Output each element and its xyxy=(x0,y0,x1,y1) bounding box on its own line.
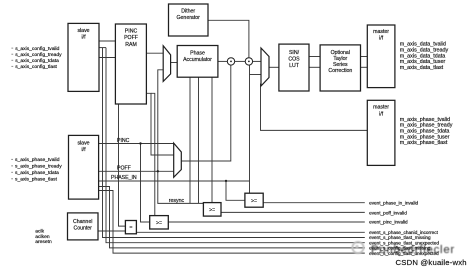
svg-text:slave: slave xyxy=(77,141,89,147)
comparator A pinc xyxy=(150,216,169,229)
svg-text:s_axis_config_tvalid: s_axis_config_tvalid xyxy=(15,46,59,52)
svg-text:slave: slave xyxy=(77,28,89,34)
svg-text:aresetn: aresetn xyxy=(35,239,52,245)
wire accumulator tap to comparator B top xyxy=(211,77,213,202)
svg-text:s_axis_phase_tdata: s_axis_phase_tdata xyxy=(15,170,59,176)
block Phase Accumulator xyxy=(177,46,218,78)
wire event_phase_in_invalid xyxy=(263,202,365,204)
svg-text:Channel: Channel xyxy=(73,219,92,225)
svg-text:PINC: PINC xyxy=(125,29,138,35)
comparator equality chanid xyxy=(125,221,136,234)
svg-text:s_axis_phase_tlast: s_axis_phase_tlast xyxy=(15,177,58,183)
svg-text:resync: resync xyxy=(169,198,185,204)
svg-text:>=: >= xyxy=(209,208,215,214)
wire adder C2 bottom tap down to comparator C top xyxy=(249,65,251,193)
svg-text:aclken: aclken xyxy=(35,234,50,240)
svg-text:SIN/: SIN/ xyxy=(289,50,300,56)
svg-text:s_axis_config_tready: s_axis_config_tready xyxy=(15,52,62,58)
svg-text:Dither: Dither xyxy=(181,8,195,14)
svg-text:POFF: POFF xyxy=(124,35,138,41)
block Dither Generator xyxy=(169,4,209,36)
wire accumulator tap to resync 2 xyxy=(198,77,200,203)
wire accumulator tap to resync 1 xyxy=(189,77,191,203)
svg-text:PHASE_IN: PHASE_IN xyxy=(111,175,137,181)
svg-text:LUT: LUT xyxy=(289,63,300,69)
svg-text:RAM: RAM xyxy=(125,42,137,48)
wire M1 output to phase accumulator xyxy=(171,62,178,64)
wire phase event column 1 xyxy=(99,187,365,248)
wire Taylor to master data lower xyxy=(361,66,368,68)
wire accumulator output to adder C1 xyxy=(218,60,227,62)
wire RAM tap branch down to comparator A top xyxy=(151,93,155,215)
svg-text:Phase: Phase xyxy=(190,50,205,56)
wire slave1 branch to event columns xyxy=(99,47,106,49)
junction PHASE_IN tap xyxy=(225,180,227,182)
svg-text:m_axis_data_tlast: m_axis_data_tlast xyxy=(400,65,444,71)
block SIN COS LUT xyxy=(279,44,309,91)
svg-text:i/f: i/f xyxy=(379,111,384,117)
mux M1 PINC select xyxy=(163,46,170,82)
block master i/f data xyxy=(367,25,395,88)
wire PINC tap down to comparator A left xyxy=(141,144,150,223)
wire event_poff_invalid xyxy=(221,211,365,213)
label s_axis_config signals xyxy=(15,46,62,70)
block PINC POFF RAM xyxy=(115,24,146,104)
block Channel Counter xyxy=(68,213,99,240)
wire phase event column 2 xyxy=(99,191,365,254)
svg-text:Accumulator: Accumulator xyxy=(183,57,212,63)
svg-text:Correction: Correction xyxy=(328,68,352,74)
wire dither generator to adder C2 xyxy=(208,20,249,57)
svg-text:i/f: i/f xyxy=(379,36,384,42)
svg-text:s_axis_config_tlast: s_axis_config_tlast xyxy=(15,64,57,70)
label event signals xyxy=(369,200,439,255)
wire Taylor to master data upper xyxy=(361,56,368,58)
wire mux3 output to adder C1 bottom xyxy=(181,65,231,161)
block slave i/f config xyxy=(68,23,99,91)
wire slave1 to RAM lower xyxy=(99,57,116,59)
watermark logo circle xyxy=(352,242,363,253)
svg-text:s_axis_phase_tvalid: s_axis_phase_tvalid xyxy=(15,157,60,163)
comparator C phase_in xyxy=(245,193,263,207)
wire adder C2 to mux2 upper input xyxy=(253,60,261,62)
label m_axis_phase signals xyxy=(400,117,453,146)
wire PHASE_IN down to comparator C left xyxy=(226,181,245,200)
mux M3 POFF select xyxy=(174,143,182,177)
wire config event column 1 xyxy=(103,48,365,238)
label m_axis_data signals xyxy=(400,42,449,71)
wire event_pinc_invalid xyxy=(168,221,364,223)
junction POFF resync tap xyxy=(157,170,159,172)
block Optional Taylor Series Correction xyxy=(320,45,360,91)
svg-text:i/f: i/f xyxy=(81,34,86,40)
junction PINC tap xyxy=(139,142,141,144)
mux M2 phase select xyxy=(261,48,269,86)
adder C2 xyxy=(245,58,252,65)
svg-text:aclk: aclk xyxy=(35,229,44,235)
svg-text:Generator: Generator xyxy=(177,15,201,21)
svg-text:CSDN @kuaile-wxh: CSDN @kuaile-wxh xyxy=(396,258,467,267)
wire mux2 output to LUT xyxy=(269,66,279,68)
svg-text:Counter: Counter xyxy=(73,226,92,232)
svg-text:master: master xyxy=(373,29,389,35)
svg-text:Ponbedrfiecler: Ponbedrfiecler xyxy=(371,244,455,256)
block slave i/f phase xyxy=(69,135,99,199)
wire LUT to Taylor lower xyxy=(309,66,320,68)
wire mux2 lower input xyxy=(250,74,262,76)
wire event_s_phase_chanid_incorrect xyxy=(136,231,364,233)
svg-text:COS: COS xyxy=(288,56,300,62)
svg-text:s_axis_phase_tready: s_axis_phase_tready xyxy=(15,164,62,170)
label aclk aclken aresetn xyxy=(35,229,52,246)
svg-text:>=: >= xyxy=(156,221,162,227)
wire adder C1 to adder C2 xyxy=(235,60,246,62)
wire PINC from slave2 to mux3 xyxy=(99,143,174,145)
svg-text:=: = xyxy=(129,225,132,231)
wire POFF from slave2 to mux3 xyxy=(99,170,174,172)
node ticks phase xyxy=(11,159,13,179)
label s_axis_phase signals xyxy=(15,157,62,182)
svg-text:i/f: i/f xyxy=(81,147,86,153)
svg-text:event_poff_invalid: event_poff_invalid xyxy=(369,210,407,215)
wire LUT to Taylor upper xyxy=(309,56,320,58)
adder C1 xyxy=(227,58,234,65)
wire slave1 to RAM upper xyxy=(99,40,116,42)
svg-text:PINC: PINC xyxy=(117,138,130,144)
wire RAM right tap down to mux3 second input xyxy=(146,93,173,155)
svg-text:>=: >= xyxy=(251,198,257,204)
wire RAM bottom to equality comparator xyxy=(119,104,126,226)
wire phase tap to master phase interface xyxy=(261,84,368,131)
wire RAM right to mux M1 upper input xyxy=(146,52,163,54)
svg-text:event_phase_in_invalid: event_phase_in_invalid xyxy=(369,200,418,205)
svg-text:POFF: POFF xyxy=(117,166,131,172)
wire channel counter to equality comparator xyxy=(98,230,125,232)
wire PHASE_IN from slave2 xyxy=(99,180,250,182)
block master i/f phase xyxy=(367,100,395,165)
svg-text:s_axis_config_tdata: s_axis_config_tdata xyxy=(15,58,59,64)
wire config event column 2 xyxy=(106,48,365,243)
svg-text:master: master xyxy=(373,105,389,111)
wire M1 lower input column down through POFF junction to resync and comparator B xyxy=(158,70,204,204)
comparator B poff xyxy=(203,203,221,217)
node ticks config xyxy=(11,48,13,67)
svg-text:m_axis_phase_tlast: m_axis_phase_tlast xyxy=(400,140,448,146)
svg-text:event_pinc_invalid: event_pinc_invalid xyxy=(369,220,408,225)
